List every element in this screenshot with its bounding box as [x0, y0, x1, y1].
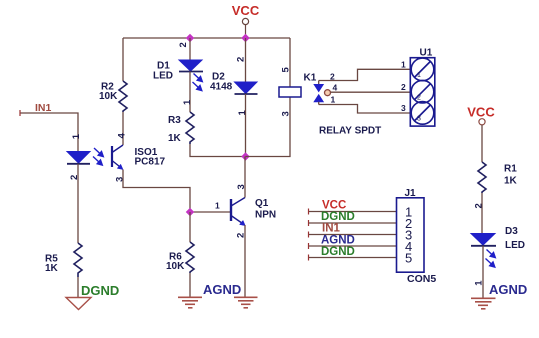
wire Q1 collector — [244, 157, 246, 198]
wire junction to relay coil — [246, 97, 291, 157]
relay K1 common pole — [325, 90, 331, 96]
diode D3 LED — [471, 234, 496, 246]
wire R6 to ground — [189, 273, 191, 297]
resistor R3 — [186, 112, 194, 144]
svg-text:2: 2 — [178, 42, 189, 47]
wire J1 pin3 — [309, 234, 398, 236]
junction node base — [186, 208, 194, 216]
svg-text:1: 1 — [237, 110, 248, 116]
wire J1 pin5 — [309, 257, 398, 259]
relay K1 coil — [279, 38, 301, 97]
ground DGND symbol — [66, 298, 91, 310]
transistor Q1 — [231, 198, 245, 226]
svg-text:5: 5 — [405, 251, 412, 266]
svg-text:R3: R3 — [168, 115, 181, 126]
svg-text:DGND: DGND — [321, 211, 355, 223]
svg-text:1K: 1K — [504, 176, 518, 187]
svg-text:NPN: NPN — [255, 210, 276, 221]
wire R3 to node — [190, 144, 246, 157]
wire ISO1 emitter to base junction — [123, 170, 190, 213]
svg-text:DGND: DGND — [81, 283, 119, 298]
svg-text:1: 1 — [474, 280, 485, 286]
svg-text:R1: R1 — [504, 164, 517, 175]
svg-text:5: 5 — [281, 67, 292, 73]
wire R1 to D3 — [481, 193, 483, 234]
svg-text:VCC: VCC — [467, 105, 495, 120]
svg-text:AGND: AGND — [203, 282, 241, 297]
optocoupler ISO1 LED — [67, 152, 90, 164]
wire R5 to DGND — [77, 277, 79, 297]
resistor R2 — [119, 38, 127, 145]
wire base junction to Q1 — [190, 211, 230, 213]
svg-text:3: 3 — [281, 111, 292, 116]
wire IN1 to opto LED — [20, 113, 78, 152]
relay K1 contact top — [314, 81, 323, 92]
svg-text:3: 3 — [401, 103, 406, 113]
svg-text:DGND: DGND — [321, 246, 355, 258]
wire J1 pin2 — [309, 222, 398, 224]
svg-text:1: 1 — [215, 201, 220, 211]
ground AGND (Q1) — [234, 297, 258, 308]
svg-text:2: 2 — [330, 72, 335, 82]
wire K1 pin4 to U1 pin2 — [331, 91, 411, 93]
svg-text:AGND: AGND — [489, 282, 527, 297]
svg-text:4: 4 — [117, 133, 128, 139]
junction at D1 top — [186, 34, 194, 42]
svg-text:IN1: IN1 — [35, 102, 52, 114]
node VCC (top) — [232, 3, 260, 38]
wire junction to R6 — [189, 212, 191, 242]
svg-text:4: 4 — [333, 83, 338, 93]
svg-text:3: 3 — [417, 116, 421, 123]
resistor R6 — [186, 242, 194, 273]
svg-text:Q1: Q1 — [255, 198, 269, 209]
junction at VCC/D2 top — [241, 34, 249, 42]
D1 emission arrows — [193, 74, 203, 91]
svg-text:D3: D3 — [505, 226, 518, 237]
svg-text:1K: 1K — [168, 133, 182, 144]
wire J1 pin4 — [309, 245, 398, 247]
diode D2 — [235, 82, 258, 94]
svg-text:1: 1 — [417, 72, 421, 79]
connector U1 terminal block — [410, 58, 435, 126]
svg-text:2: 2 — [474, 203, 485, 208]
svg-text:1: 1 — [71, 133, 82, 139]
ISO1 emission arrows — [93, 148, 103, 165]
wire top rail VCC — [123, 37, 290, 39]
svg-text:VCC: VCC — [232, 3, 260, 18]
wire D1 top — [189, 38, 191, 60]
svg-text:2: 2 — [417, 94, 421, 101]
wire Q1 emitter to ground — [244, 225, 246, 297]
svg-text:1: 1 — [401, 60, 406, 70]
junction node collector — [241, 152, 249, 160]
svg-text:U1: U1 — [420, 48, 433, 59]
svg-text:1: 1 — [182, 99, 193, 105]
svg-text:RELAY SPDT: RELAY SPDT — [319, 126, 381, 137]
diode D1 LED — [179, 60, 203, 72]
ground AGND (R6) — [178, 297, 202, 308]
svg-text:4148: 4148 — [210, 81, 233, 92]
svg-text:1: 1 — [331, 95, 336, 105]
resistor R1 — [478, 162, 486, 193]
svg-text:LED: LED — [505, 240, 525, 251]
svg-text:3: 3 — [115, 177, 126, 182]
wire D2 to junction — [245, 94, 247, 157]
svg-text:LED: LED — [153, 71, 173, 82]
svg-text:10K: 10K — [166, 261, 185, 272]
connector J1 — [397, 198, 425, 272]
wire opto LED to R5 — [77, 164, 79, 243]
svg-text:2: 2 — [236, 57, 247, 62]
wire K1 pin1 to U1 pin3 — [319, 105, 411, 114]
wire D1 to R3 — [189, 72, 191, 113]
svg-text:PC817: PC817 — [135, 156, 166, 167]
svg-text:VCC: VCC — [322, 200, 346, 212]
svg-text:AGND: AGND — [321, 235, 355, 247]
D3 emission arrows — [486, 250, 496, 268]
svg-text:CON5: CON5 — [407, 273, 436, 285]
optocoupler ISO1 phototransistor — [112, 145, 123, 170]
wire J1 pin1 — [309, 211, 398, 213]
svg-text:2: 2 — [401, 82, 406, 92]
relay K1 contact bottom — [314, 95, 323, 105]
svg-text:10K: 10K — [99, 91, 118, 102]
wire K1 pin2 to U1 pin1 — [319, 69, 411, 80]
resistor R5 — [74, 243, 82, 277]
wire D3 to ground — [482, 246, 484, 298]
wire VCC to D2 — [245, 38, 247, 82]
svg-text:IN1: IN1 — [322, 223, 341, 235]
node VCC (right) — [467, 105, 495, 163]
svg-text:K1: K1 — [304, 73, 317, 84]
svg-text:1K: 1K — [45, 263, 59, 274]
ground AGND (D3) — [471, 298, 496, 309]
